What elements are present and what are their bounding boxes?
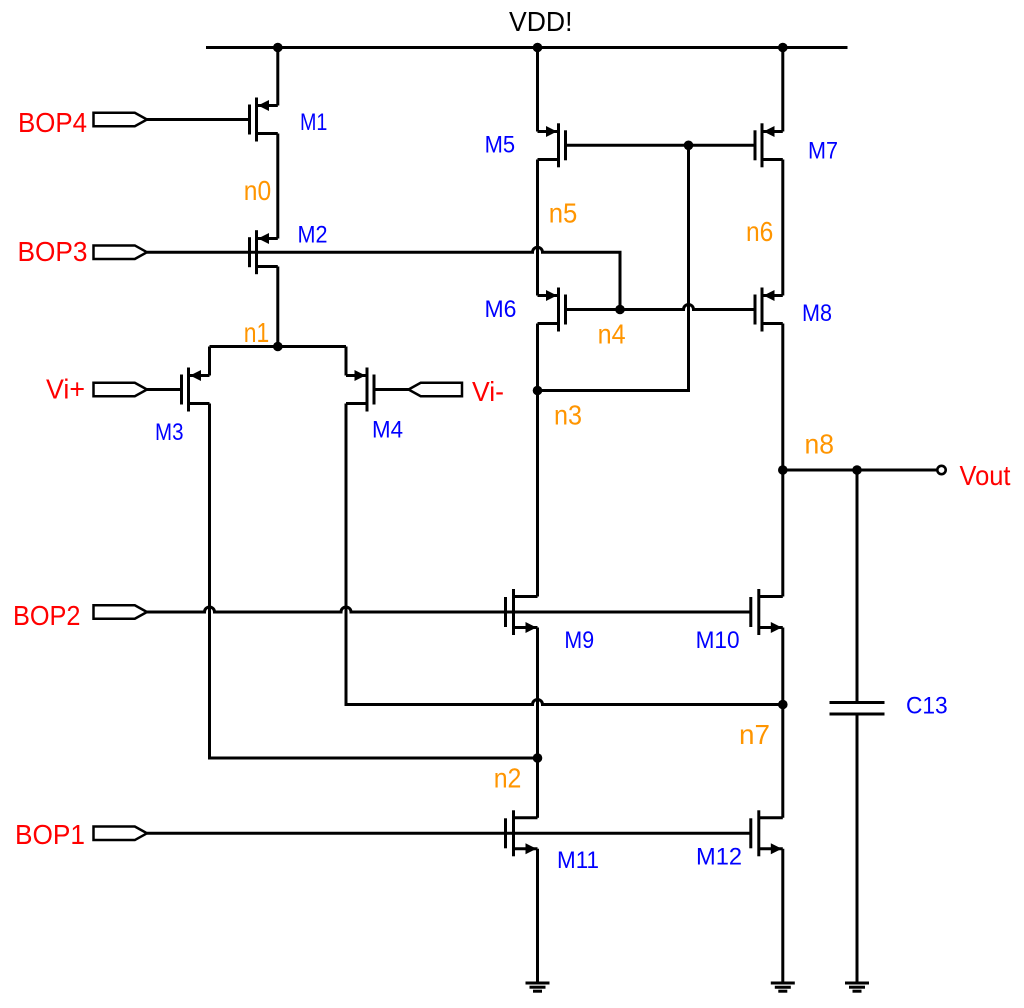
- svg-text:n5: n5: [549, 198, 578, 229]
- svg-text:M9: M9: [564, 627, 594, 654]
- junction M5/M7 gates: [684, 141, 694, 151]
- wire VDD to M5 source: [536, 48, 539, 132]
- svg-text:Vi-: Vi-: [472, 376, 504, 407]
- svg-text:M7: M7: [808, 138, 838, 165]
- svg-text:BOP1: BOP1: [15, 819, 85, 850]
- wire BOP4 to M1 gate: [147, 118, 250, 121]
- wire M11 source to ground: [536, 849, 539, 983]
- svg-text:BOP3: BOP3: [18, 236, 88, 267]
- svg-text:n3: n3: [554, 400, 582, 431]
- ground (C13): [845, 983, 869, 991]
- wire BOP3 to M2 gate and across to n4 (hop over M5 column): [147, 247, 620, 309]
- ground (M12): [771, 983, 795, 991]
- pin BOP4: [94, 113, 148, 127]
- wire VDD to M7 source: [781, 48, 784, 132]
- pin Vi+: [94, 383, 148, 397]
- wire n8 to C13 top plate: [856, 470, 859, 703]
- pin BOP2: [94, 605, 148, 619]
- capacitor C13: [830, 703, 885, 715]
- node n8 junction: [778, 465, 788, 475]
- svg-text:VDD!: VDD!: [509, 6, 573, 37]
- pin Vi- (left pointing): [409, 383, 463, 397]
- transistor M8 (PMOS): [755, 288, 783, 332]
- pin BOP3: [94, 245, 148, 259]
- wire n1 to M3 source: [208, 347, 211, 376]
- wire n1 horizontal: [210, 345, 347, 348]
- svg-text:M3: M3: [155, 419, 184, 446]
- wire M6 gate to M8 gate (hop over n3 riser): [566, 305, 756, 310]
- svg-text:BOP4: BOP4: [18, 107, 87, 138]
- svg-text:C13: C13: [906, 693, 948, 720]
- wire M2 drain to n1: [276, 267, 279, 347]
- svg-text:n4: n4: [598, 319, 626, 350]
- VDD rail wire: [206, 46, 848, 49]
- junction on rail at M7 column: [778, 43, 788, 53]
- svg-text:n8: n8: [805, 429, 835, 460]
- wire BOP2 to M9/M10 gates (hops over M3 and M4 drain risers): [147, 607, 751, 612]
- wire BOP1 to M11/M12 gates: [147, 832, 751, 835]
- wire n8 to M10 drain: [781, 470, 784, 597]
- wire node n0 (M1 drain to M2 source): [276, 134, 279, 239]
- wire M4 drain to n7 (hop over M9 column): [346, 404, 783, 705]
- junction on rail at M5 column: [533, 43, 543, 53]
- svg-text:M2: M2: [298, 222, 328, 249]
- wire M7 drain to M8 source (node n6): [781, 160, 784, 296]
- wire M5 gate to M7 gate: [566, 144, 756, 147]
- wire Vi+ to M3 gate: [147, 388, 182, 391]
- wire M9 source to n2: [536, 628, 539, 759]
- wire n2 to M11 drain: [536, 758, 539, 818]
- transistor M1 (PMOS): [250, 98, 278, 142]
- wire M3 drain to n2: [210, 404, 538, 759]
- transistor M2 (PMOS): [250, 230, 278, 274]
- wire M6 drain to n3: [536, 324, 539, 391]
- junction n8/C13: [852, 465, 862, 475]
- transistor M9 (NMOS): [506, 589, 538, 635]
- wire C13 bottom plate to ground: [856, 714, 859, 983]
- svg-text:n2: n2: [494, 763, 522, 794]
- svg-text:M5: M5: [485, 131, 515, 158]
- transistor M6 (PMOS mirrored): [538, 288, 566, 332]
- svg-text:n1: n1: [244, 317, 269, 348]
- node n2 junction: [533, 753, 543, 763]
- svg-text:n0: n0: [244, 175, 271, 206]
- wire M10 source to n7: [781, 628, 784, 705]
- svg-text:n7: n7: [739, 719, 770, 750]
- transistor M3 (PMOS): [182, 368, 210, 412]
- wire n7 to M12 drain: [781, 705, 784, 818]
- svg-text:BOP2: BOP2: [13, 600, 81, 631]
- svg-text:Vout: Vout: [960, 460, 1011, 491]
- svg-text:Vi+: Vi+: [46, 374, 85, 405]
- pin BOP1: [94, 827, 148, 841]
- svg-text:M10: M10: [696, 627, 740, 654]
- transistor M7 (PMOS): [755, 123, 783, 167]
- svg-text:M1: M1: [300, 109, 327, 136]
- Vout terminal circle: [937, 466, 945, 474]
- wire n3 to M9 drain: [536, 391, 539, 597]
- transistor M11 (NMOS): [506, 810, 538, 856]
- transistor M12 (NMOS): [751, 810, 783, 856]
- svg-text:M6: M6: [485, 296, 517, 323]
- wire M8 drain to n8: [781, 324, 784, 471]
- wire M12 source to ground: [781, 849, 784, 983]
- wire M4 gate to Vi-: [374, 388, 409, 391]
- wire M5 drain to M6 source (node n5): [536, 160, 539, 296]
- transistor M4 (PMOS mirrored): [346, 368, 374, 412]
- node n4 junction: [615, 305, 625, 315]
- node n3 junction: [533, 386, 543, 396]
- node n1 junction: [273, 342, 283, 352]
- node n7 junction: [778, 700, 788, 710]
- svg-text:M8: M8: [802, 300, 832, 327]
- wire n1 to M4 source: [345, 347, 348, 376]
- transistor M5 (PMOS mirrored): [538, 123, 566, 167]
- wire n8 to Vout: [783, 469, 937, 472]
- junction on rail at M1 column: [273, 43, 283, 53]
- wire VDD to M1 source: [276, 48, 279, 106]
- wire n3 to M5/M7 gate junction: [538, 145, 689, 390]
- svg-text:M12: M12: [696, 844, 742, 871]
- ground (M11): [526, 983, 550, 991]
- svg-text:n6: n6: [746, 216, 773, 247]
- svg-text:M4: M4: [372, 417, 403, 444]
- transistor M10 (NMOS): [751, 589, 783, 635]
- svg-text:M11: M11: [557, 847, 599, 874]
